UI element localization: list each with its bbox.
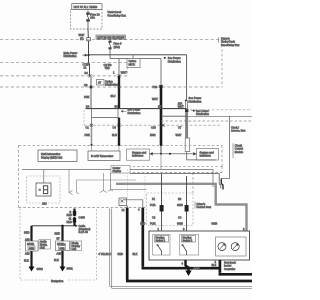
callout See Power Distribution (top right) xyxy=(164,56,182,63)
svg-text:41: 41 xyxy=(69,216,72,220)
thick return wire right xyxy=(219,260,253,274)
dashed connector line main xyxy=(84,124,222,126)
under-dash fuse/relay box right dashed edge xyxy=(221,40,223,87)
svg-text:C7: C7 xyxy=(178,126,182,130)
svg-text:Distribution: Distribution xyxy=(168,59,182,63)
callout See Power Distribution (link) xyxy=(192,109,210,116)
svg-text:B-CAN Transceiver: B-CAN Transceiver xyxy=(91,154,113,158)
thick traced wire BLU riser xyxy=(118,76,120,109)
gauge module top dashed boundary xyxy=(19,144,222,146)
shielded cable pair xyxy=(110,209,112,289)
junction mark x119 on boundary xyxy=(118,74,121,77)
riser continuation to bus xyxy=(160,154,162,170)
gauge module bottom dashed edge xyxy=(19,207,147,209)
svg-text:C1: C1 xyxy=(86,126,90,130)
svg-text:A15: A15 xyxy=(57,252,62,256)
svg-text:BLU: BLU xyxy=(111,94,116,98)
odometer dashed sub-box xyxy=(27,176,61,203)
thick wire BLK from cluster to heater rail xyxy=(142,208,220,269)
svg-text:WHT: WHT xyxy=(152,97,158,101)
svg-text:Module: Module xyxy=(235,150,244,154)
svg-text:PNK: PNK xyxy=(85,133,91,137)
svg-text:G501: G501 xyxy=(67,267,74,271)
svg-text:Distribution: Distribution xyxy=(105,82,119,86)
bus bend 3 xyxy=(221,179,223,190)
svg-text:amp: amp xyxy=(60,247,66,250)
svg-text:RED: RED xyxy=(24,231,30,235)
svg-text:C10: C10 xyxy=(151,126,156,130)
svg-text:PUR: PUR xyxy=(150,203,156,207)
svg-text:C4: C4 xyxy=(178,216,182,220)
internal bus xyxy=(22,169,213,171)
svg-text:Unit: Unit xyxy=(40,246,45,250)
box gauges and indicators left xyxy=(127,149,150,160)
seven segment display box xyxy=(36,170,51,197)
ground G401 xyxy=(185,271,191,277)
svg-text:WHT: WHT xyxy=(176,133,182,137)
shielded feed pair WHT xyxy=(186,101,188,138)
svg-text:Q8: Q8 xyxy=(84,83,88,87)
svg-text:BRN: BRN xyxy=(150,133,156,137)
arrowed link between gauge boxes xyxy=(150,153,196,155)
svg-text:10A: 10A xyxy=(90,16,95,20)
svg-text:2: 2 xyxy=(243,227,245,231)
svg-text:TBB: TBB xyxy=(105,66,110,70)
bus bend 2 xyxy=(130,174,221,189)
svg-text:Controller: Controller xyxy=(224,267,235,271)
label box Audio Navigation Unit xyxy=(39,240,51,250)
junction dots at module entry xyxy=(91,144,93,146)
dashed boundary mid xyxy=(0,75,127,77)
label Driver's Under-Dash Fuse/Relay Box xyxy=(219,36,241,46)
dashed internal partitions xyxy=(110,173,112,190)
junction dots on link xyxy=(160,153,162,155)
svg-text:RED: RED xyxy=(67,220,73,224)
svg-text:Display: Display xyxy=(113,169,122,173)
dashed boundary lower xyxy=(0,86,222,88)
inner wires from entries xyxy=(91,145,93,151)
ground G502 xyxy=(29,267,35,272)
link line to accessory wire xyxy=(187,115,252,117)
gray traced wire path xyxy=(116,184,247,231)
wire WHT into module xyxy=(187,152,216,160)
svg-text:RED: RED xyxy=(118,252,124,256)
svg-text:Fuse/Relay Box: Fuse/Relay Box xyxy=(108,13,127,17)
display bracket xyxy=(77,180,80,194)
svg-text:(15A): (15A) xyxy=(114,45,120,49)
svg-text:GRN: GRN xyxy=(177,222,183,226)
fuse 13 xyxy=(87,11,90,30)
main feed wire down through boundary xyxy=(88,55,90,62)
label Circuit Control Module xyxy=(232,143,234,158)
sub link bar xyxy=(92,117,119,119)
junction marks on connector line xyxy=(90,124,93,127)
audio unit branch wire xyxy=(30,226,32,267)
svg-text:WHT: WHT xyxy=(178,104,184,108)
svg-text:Fuse/Relay Box: Fuse/Relay Box xyxy=(221,43,240,47)
switch wire GRN xyxy=(185,176,189,231)
node HOT IN ON OR START shaded box xyxy=(96,35,126,39)
dashed continuation of band xyxy=(190,109,252,111)
svg-text:BLK: BLK xyxy=(212,263,217,267)
cluster output wire RED to audio xyxy=(73,209,76,226)
nav display component box xyxy=(56,241,70,251)
svg-text:SPKR+: SPKR+ xyxy=(57,242,66,246)
box B-CAN transceiver xyxy=(88,151,120,161)
svg-text:Access. Box: Access. Box xyxy=(231,129,246,133)
svg-text:A7: A7 xyxy=(98,81,102,85)
svg-text:GRN: GRN xyxy=(211,222,217,226)
inner link line xyxy=(108,190,146,192)
svg-text:12: 12 xyxy=(122,208,125,212)
navigation dashed enclosure xyxy=(20,209,97,281)
fuse 6 under HOT IN ON box xyxy=(109,39,111,58)
svg-text:A22: A22 xyxy=(42,202,47,206)
svg-text:MICU: MICU xyxy=(129,62,136,66)
svg-text:Distribution: Distribution xyxy=(64,54,78,58)
gauge module right dashed edge xyxy=(128,145,222,193)
ground wire from main box xyxy=(186,260,189,271)
svg-text:RED: RED xyxy=(67,213,73,217)
svg-text:Distribution: Distribution xyxy=(128,111,142,115)
junction blob xyxy=(185,109,188,112)
display pointer arrow xyxy=(100,173,107,193)
bus bend 1 xyxy=(212,170,214,188)
svg-text:C405: C405 xyxy=(79,216,86,220)
junction dot main power xyxy=(87,54,89,56)
svg-text:1: 1 xyxy=(113,71,115,75)
under-hood fuse/relay box dashed outline xyxy=(71,10,103,30)
label Center Display on bus xyxy=(111,166,130,174)
audio unit component box xyxy=(26,241,39,251)
thin drops below band xyxy=(91,109,93,118)
wire WHT vertical from main feed xyxy=(186,55,188,101)
svg-text:G502: G502 xyxy=(37,267,44,271)
node HOT AT ALL TIMES header box xyxy=(72,4,102,10)
junction mark x90 on boundary xyxy=(89,74,92,77)
svg-text:RED: RED xyxy=(55,232,61,236)
svg-text:B6: B6 xyxy=(115,105,119,109)
svg-text:HOT IN ON OR START: HOT IN ON OR START xyxy=(98,35,125,39)
svg-text:WHT: WHT xyxy=(121,71,127,75)
svg-text:G401: G401 xyxy=(194,267,201,271)
box gauges and indicators right xyxy=(197,149,219,161)
heater switch dashed box xyxy=(147,193,194,226)
svg-text:Display (MID) Unit: Display (MID) Unit xyxy=(41,155,62,159)
svg-text:Indicators: Indicators xyxy=(132,154,144,158)
svg-text:BLU: BLU xyxy=(112,133,117,137)
wire from accessory box xyxy=(221,116,229,178)
main riser thin segment xyxy=(160,59,162,86)
svg-text:Unit: Unit xyxy=(72,247,77,251)
cross link bar xyxy=(161,115,187,117)
svg-text:Switch 2: Switch 2 xyxy=(183,238,193,242)
svg-text:C6: C6 xyxy=(113,126,117,130)
svg-text:Switch 1: Switch 1 xyxy=(156,238,166,242)
svg-text:P10: P10 xyxy=(153,85,158,89)
svg-text:R-17-40: R-17-40 xyxy=(79,230,89,234)
svg-text:B7: B7 xyxy=(158,105,162,109)
junction dot at nav branch xyxy=(61,225,63,227)
svg-text:B4: B4 xyxy=(86,105,90,109)
svg-text:4: 4 xyxy=(138,208,140,212)
svg-text:amp: amp xyxy=(29,247,35,250)
cluster exit component box xyxy=(119,198,127,206)
ground G501 xyxy=(60,267,66,272)
svg-text:BLK: BLK xyxy=(24,259,29,263)
callout See Power Distribution (BLU wire) xyxy=(121,108,141,115)
svg-text:C3: C3 xyxy=(152,216,156,220)
svg-text:BLK: BLK xyxy=(54,258,59,262)
wire BLU lower segment thick xyxy=(118,118,120,145)
wire WHT from fuse 13 down xyxy=(87,29,89,38)
relay boxlet on main feed xyxy=(127,55,140,68)
thick traced riser xyxy=(160,86,163,145)
BLU branch down from feed line xyxy=(118,59,120,76)
callout cable reel note xyxy=(75,224,91,234)
audio feed split bar xyxy=(32,225,75,227)
heating switch 1 sub box xyxy=(153,235,171,256)
svg-text:B4: B4 xyxy=(85,71,89,75)
svg-text:1: 1 xyxy=(158,227,160,231)
svg-text:GRN: GRN xyxy=(177,203,183,207)
box Multi-Information Display unit xyxy=(38,150,77,162)
svg-text:PUR: PUR xyxy=(150,222,156,226)
wire PNK lower segment xyxy=(91,126,93,145)
connector blob at boundary xyxy=(159,85,163,88)
svg-text:PNK: PNK xyxy=(84,95,90,99)
svg-text:Navigation: Navigation xyxy=(51,279,64,283)
seat heater main box xyxy=(149,231,250,260)
dashed connector line upper xyxy=(161,120,252,122)
svg-text:4: 4 xyxy=(182,262,184,266)
svg-text:SPKR: SPKR xyxy=(27,242,34,246)
svg-text:Multi-Information: Multi-Information xyxy=(41,152,61,156)
switch wire PUR xyxy=(160,174,164,231)
svg-text:Indicators: Indicators xyxy=(200,154,212,158)
internal bus 2 xyxy=(77,179,137,181)
svg-text:B7: B7 xyxy=(57,237,61,241)
svg-text:3: 3 xyxy=(183,227,185,231)
connector stack right xyxy=(185,138,190,152)
connector A7 box xyxy=(97,79,119,86)
label box Navigation Display Unit xyxy=(71,241,82,251)
callout Main Power Distribution xyxy=(64,51,88,58)
label Driver's Heated Seat xyxy=(194,202,196,209)
svg-text:A18: A18 xyxy=(25,252,30,256)
callout See Power Distribution (wire source) xyxy=(185,96,202,103)
branch line to riser xyxy=(110,58,161,60)
display pointer wire xyxy=(69,170,73,195)
distribution band line xyxy=(86,108,187,110)
svg-text:BLU: BLU xyxy=(140,222,145,226)
thick wire RED from cluster to bottom rail xyxy=(126,208,252,281)
connector at under-dash box boundary xyxy=(87,38,91,41)
exit link line xyxy=(123,200,143,208)
heating switch 2 sub box xyxy=(180,235,199,256)
gauge module left dashed edge xyxy=(18,145,20,207)
svg-text:F1: F1 xyxy=(152,197,156,201)
heater elements sub box xyxy=(216,237,247,256)
under-dash fuse/relay box top dashed boundary xyxy=(0,39,218,41)
connector blobs on lower boundary xyxy=(90,86,93,89)
wire WHT lower segment xyxy=(186,112,188,138)
dashed box right edge xyxy=(126,62,128,76)
svg-text:WHT: WHT xyxy=(79,33,85,37)
svg-text:Heated Seat: Heated Seat xyxy=(197,205,212,209)
svg-text:HOT AT ALL TIMES: HOT AT ALL TIMES xyxy=(74,5,98,9)
wire horizontal main feed to WHT drop xyxy=(89,54,187,56)
svg-text:BLK: BLK xyxy=(133,252,138,256)
svg-text:B3: B3 xyxy=(178,197,182,201)
wire from fuse 13 to junction xyxy=(88,41,90,55)
svg-text:Distribution: Distribution xyxy=(196,112,210,116)
thin riser segments through connector line xyxy=(91,118,93,126)
light traced wire PNK xyxy=(90,76,92,109)
under-dash box bottom dashed boundary xyxy=(0,61,127,63)
svg-text:Distribution: Distribution xyxy=(189,99,203,103)
dashed connector box left edge xyxy=(83,110,85,125)
svg-text:Fuse 6: Fuse 6 xyxy=(114,41,122,45)
nav display branch wire xyxy=(61,226,63,267)
